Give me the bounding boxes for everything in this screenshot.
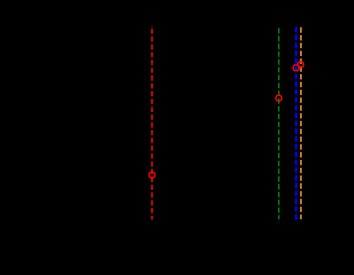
red ring marker on orange line (300.7,64.5) [298, 62, 304, 68]
red dashed vertical line x=152 [151, 26, 153, 220]
blue dashed vertical line x=296.1 [295, 26, 297, 220]
orange dashed vertical line x=300.9 [300, 26, 302, 220]
red ring marker on green line (278.8,98.1) [276, 95, 282, 101]
red ring marker on red line (152,174.9) [149, 172, 155, 178]
red ring marker on blue line (296.1,67.8) [293, 65, 299, 71]
green dashed vertical line x=278.8 [278, 26, 280, 219]
